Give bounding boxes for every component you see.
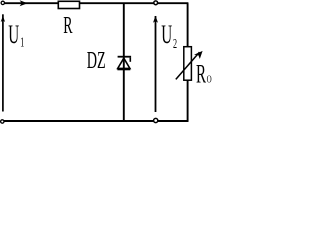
variable resistor Ro: [184, 47, 192, 80]
resistor R: [58, 1, 79, 8]
svg-text:U: U: [8, 20, 19, 49]
wire diode branch: [123, 3, 125, 121]
svg-text:DZ: DZ: [87, 47, 106, 74]
bottom wire: [4, 120, 189, 122]
label Ro: [196, 59, 212, 88]
node dot top: [154, 1, 158, 5]
svg-text:U: U: [161, 20, 172, 49]
svg-text:R: R: [63, 14, 73, 40]
wiper arrow of Ro: [176, 51, 203, 80]
voltage arrow U1: [1, 14, 5, 111]
svg-text:O: O: [207, 73, 212, 85]
zener diode DZ: [117, 56, 131, 71]
input terminal top: [1, 1, 4, 4]
input terminal bottom: [1, 120, 4, 123]
svg-text:1: 1: [20, 36, 24, 51]
label U2: [161, 20, 177, 52]
node dot bottom: [154, 118, 158, 122]
wire right branch: [187, 3, 189, 121]
svg-text:2: 2: [173, 37, 177, 52]
voltage arrow U2: [153, 16, 158, 112]
top wire: [5, 2, 189, 4]
current arrow on top wire: [20, 0, 28, 6]
label U1: [8, 20, 24, 51]
svg-text:R: R: [196, 59, 207, 88]
